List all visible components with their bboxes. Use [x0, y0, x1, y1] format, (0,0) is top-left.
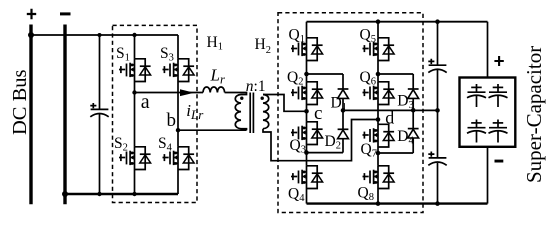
svg-text:Q5: Q5	[360, 27, 376, 46]
node dot cap top	[98, 33, 102, 37]
wire bottom rail left	[65, 193, 178, 195]
transistor Q2	[291, 82, 323, 105]
node dot Q8 bottom	[376, 201, 381, 206]
wire D3 cathode lead	[412, 74, 414, 89]
wire H2 bottom rail	[307, 202, 488, 204]
transistor S4	[163, 147, 195, 170]
transistor Q7	[363, 124, 395, 147]
wire Q4 source to bottom rail	[306, 189, 308, 204]
diode D2	[338, 129, 349, 138]
wire Q5-Q6 mid to D3	[378, 73, 413, 75]
transistor Q5	[363, 38, 395, 61]
svg-text:a: a	[141, 91, 150, 113]
svg-text:Q3: Q3	[290, 137, 306, 156]
svg-text:c: c	[314, 103, 322, 124]
label - (supercap)	[495, 160, 504, 163]
transistor Q6	[363, 82, 395, 105]
svg-text:iLr: iLr	[186, 101, 204, 122]
svg-text:D3: D3	[397, 93, 413, 112]
wire clamp midpoint to capacitors	[343, 109, 438, 111]
wire D4 anode lead	[412, 138, 414, 153]
wire Q8 drain	[377, 153, 379, 166]
super-capacitor box	[460, 78, 516, 147]
node dot link cap top	[435, 19, 440, 24]
wire Q1-Q2 mid to D1	[307, 73, 344, 75]
svg-text:S4: S4	[158, 135, 173, 154]
dashed box H2	[278, 13, 423, 213]
svg-text:Q6: Q6	[360, 69, 376, 88]
wire D4 cathode lead	[412, 110, 414, 128]
supercap cell 1	[467, 84, 486, 107]
wire D2 anode lead	[342, 139, 344, 153]
diode D4	[408, 129, 419, 138]
svg-text:DC Bus: DC Bus	[9, 69, 31, 135]
wire Q5 source to mid	[377, 61, 379, 75]
label + (supercap)	[494, 56, 503, 66]
capacitor C1 (link top)	[428, 59, 446, 73]
diode D3	[408, 89, 419, 98]
DC bus + bar	[29, 25, 32, 205]
wire D1 anode lead	[342, 98, 344, 110]
wire link capacitor bottom lead	[437, 163, 439, 204]
wire Q7-Q8 mid to D4	[378, 152, 413, 154]
wire Q2 source to node c	[306, 105, 308, 112]
transistor Q1	[291, 38, 323, 61]
wire Q6 source to node d	[377, 105, 379, 120]
wire Q8 source to bottom rail	[377, 189, 379, 204]
wire top rail left	[31, 34, 178, 36]
wire Q2 drain	[306, 74, 308, 82]
transistor S2	[119, 147, 151, 170]
supercap cell 4	[489, 120, 508, 143]
wire H2 top rail	[307, 21, 488, 23]
wire supercap positive lead	[487, 22, 489, 78]
transistor Q4	[291, 166, 323, 189]
svg-text:b: b	[167, 110, 177, 131]
capacitor C2 (link bottom)	[428, 152, 446, 166]
svg-text:D2: D2	[325, 133, 341, 152]
wire Q7 drain	[377, 120, 379, 125]
svg-text:H1: H1	[207, 34, 223, 53]
node dot link cap bottom	[435, 201, 440, 206]
transistor S3	[163, 59, 195, 82]
node b dot	[176, 128, 180, 132]
wire node a to inductor	[135, 92, 204, 94]
wire S4 drain	[177, 130, 179, 147]
current arrow iLr	[180, 89, 194, 96]
transistor Q8	[363, 166, 395, 189]
transformer polarity dot secondary	[261, 97, 264, 100]
svg-text:S1: S1	[116, 45, 130, 64]
wire D1 cathode lead	[342, 74, 344, 89]
svg-text:Q1: Q1	[289, 27, 305, 46]
node a dot	[132, 90, 136, 94]
wire supercap negative lead	[487, 147, 489, 204]
capacitor C_dc wire top	[99, 35, 101, 109]
node dot Q5 top	[376, 19, 381, 24]
svg-text:Super-Capacitor: Super-Capacitor	[522, 46, 546, 183]
wire Q3 drain	[306, 111, 308, 122]
node dot + bar to top rail	[28, 32, 34, 38]
wire link capacitor middle	[437, 70, 439, 158]
transformer core	[250, 93, 253, 134]
supercap cell 2	[489, 84, 508, 107]
dashed box H1	[113, 25, 198, 202]
node dot Q1-Q2	[304, 72, 309, 77]
label - (DC bus)	[60, 12, 71, 15]
wire Q6 drain	[377, 74, 379, 82]
svg-text:Lr: Lr	[210, 65, 225, 86]
svg-text:Q4: Q4	[288, 186, 305, 205]
wire Q1 source to mid	[306, 61, 308, 75]
wire S3 drain	[177, 35, 179, 59]
node dot S1 top	[132, 33, 136, 37]
node d dot	[376, 117, 381, 122]
capacitor C_dc wire bottom	[99, 114, 101, 194]
node dot D1-D2	[341, 108, 346, 113]
wire secondary top to node c	[263, 95, 307, 112]
transformer primary bottom connector	[241, 129, 247, 131]
wire S3 source to node b	[177, 82, 179, 131]
inductor Lr	[203, 87, 225, 93]
svg-text:Q7: Q7	[361, 141, 377, 160]
wire Q7 source to mid	[377, 147, 379, 153]
svg-text:S3: S3	[160, 45, 174, 64]
node c dot	[304, 109, 309, 114]
transistor S1	[119, 59, 151, 82]
node dot cap bottom	[97, 192, 101, 196]
node dot S2 bottom	[132, 192, 136, 196]
wire S1 drain	[134, 35, 136, 59]
wire Q4 drain	[306, 153, 308, 166]
wire node b to primary bottom	[178, 129, 247, 131]
node dot D3-D4	[411, 108, 416, 113]
svg-text:n:1: n:1	[246, 78, 266, 95]
node dot Q7-Q8	[376, 151, 381, 156]
wire S2 source	[134, 170, 136, 195]
svg-text:Q8: Q8	[358, 185, 374, 204]
node dot Q3-Q4	[304, 150, 309, 155]
node dot Q5-Q6	[376, 72, 381, 77]
wire Q3-Q4 mid to D2	[307, 152, 344, 154]
supercap cell 3	[467, 120, 486, 143]
node dot clamp wire to cap line	[435, 108, 440, 113]
svg-text:H2: H2	[255, 36, 271, 56]
capacitor C_dc	[90, 103, 108, 117]
wire D3 anode lead	[412, 98, 414, 110]
transistor Q3	[291, 122, 323, 145]
wire S1 source to node a	[134, 82, 136, 93]
wire S2 drain	[134, 93, 136, 147]
node dot - bar to bottom rail	[62, 191, 68, 197]
wire D2 cathode lead	[342, 110, 344, 129]
svg-text:S2: S2	[114, 135, 128, 154]
DC bus - bar	[63, 25, 66, 205]
transformer polarity dot primary	[240, 97, 243, 100]
label + (DC bus)	[27, 9, 36, 19]
wire Q3 source to mid	[306, 145, 308, 153]
diode D1	[338, 89, 349, 98]
wire link capacitor top lead	[437, 22, 439, 65]
wire inductor to transformer	[225, 93, 247, 95]
wire secondary bottom to node d	[263, 120, 378, 161]
svg-text:Q2: Q2	[287, 69, 303, 88]
wire S4 source	[177, 170, 179, 195]
transformer secondary winding	[263, 95, 269, 129]
transformer primary winding	[235, 95, 241, 129]
wire Q5 drain	[377, 22, 379, 38]
wire Q1 drain	[306, 22, 308, 38]
